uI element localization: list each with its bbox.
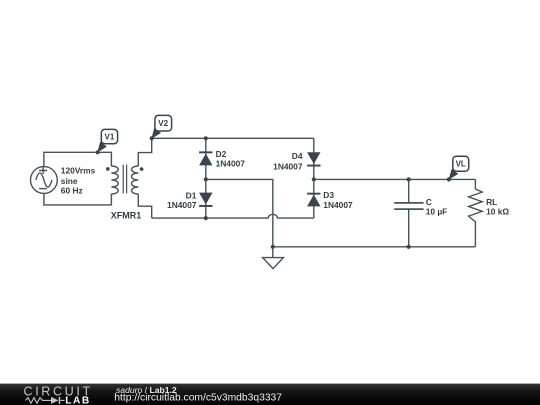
svg-text:10 µF: 10 µF: [426, 206, 448, 216]
svg-text:D4: D4: [292, 151, 303, 161]
svg-text:sine: sine: [61, 176, 78, 186]
svg-text:1N4007: 1N4007: [273, 161, 303, 171]
svg-text:XFMR1: XFMR1: [111, 211, 142, 221]
svg-text:V2: V2: [158, 119, 168, 128]
svg-text:120Vrms: 120Vrms: [61, 166, 96, 176]
svg-text:60 Hz: 60 Hz: [61, 186, 83, 196]
svg-text:10 kΩ: 10 kΩ: [486, 206, 509, 216]
svg-text:1N4007: 1N4007: [167, 200, 197, 210]
svg-text:LAB: LAB: [65, 395, 90, 405]
svg-text:1N4007: 1N4007: [216, 159, 246, 169]
svg-text:V1: V1: [105, 132, 115, 141]
svg-text:VL: VL: [456, 160, 466, 169]
svg-text:D1: D1: [186, 190, 197, 200]
svg-text:http://circuitlab.com/c5v3mdb3: http://circuitlab.com/c5v3mdb3q3337: [114, 392, 282, 403]
svg-text:D3: D3: [323, 190, 334, 200]
svg-text:D2: D2: [216, 149, 227, 159]
svg-text:1N4007: 1N4007: [323, 200, 353, 210]
